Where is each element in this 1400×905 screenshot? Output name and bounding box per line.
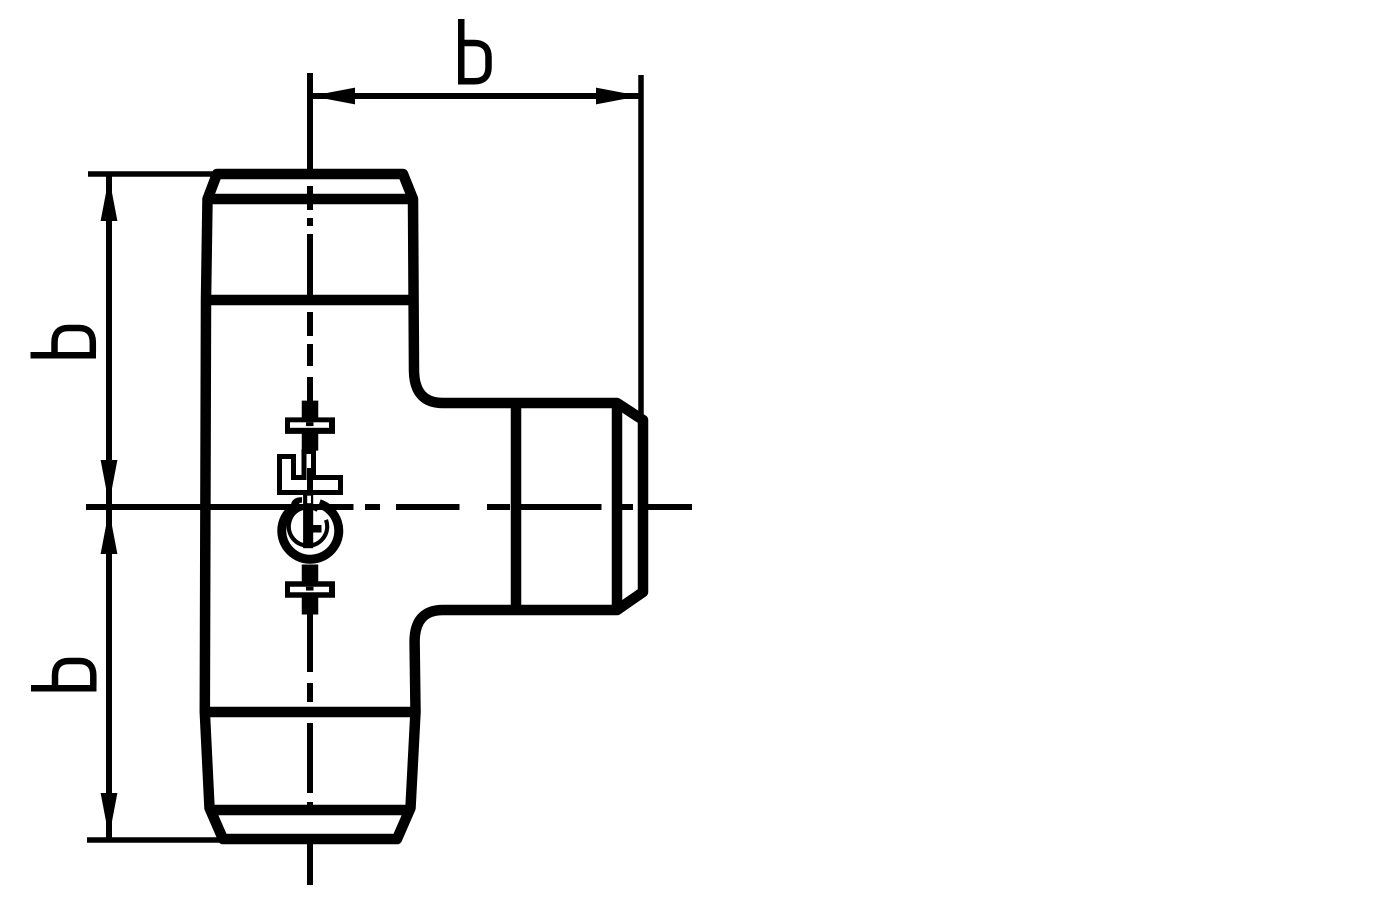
GF logo cross bottom: [285, 565, 335, 615]
label b top: [461, 19, 488, 85]
GF logo letter G terminal hook: [294, 500, 303, 507]
branch socket depth line: [511, 403, 522, 610]
extension line right of top dimension: [638, 75, 644, 418]
GF logo letter G inner edge ring (rotated): [289, 507, 327, 545]
bottom socket depth line: [205, 707, 416, 718]
label b lower-left (rotated): [31, 661, 97, 688]
GF logo letter F (rotated): [280, 452, 341, 493]
arrowhead lower-left bottom: [101, 793, 118, 837]
top socket depth line: [206, 295, 414, 306]
centerline dash crossing F: [307, 468, 313, 495]
GF logo letter G crossbar stub: [313, 525, 322, 533]
arrowhead upper-left bottom: [101, 460, 118, 504]
dimension line b upper-left: [106, 176, 112, 505]
branch chamfer line: [612, 403, 623, 610]
arrowhead lower-left top: [101, 510, 118, 554]
bottom socket chamfer line: [211, 805, 409, 816]
tee fitting body outline: [205, 174, 643, 839]
dimension line b top: [310, 93, 641, 99]
GF logo letter G bar: [303, 495, 313, 549]
GF logo cross top: [285, 401, 335, 451]
extension line bottom-left: [87, 837, 226, 843]
centerline vertical (dash-dot): [307, 73, 313, 885]
arrowhead upper-left top: [101, 177, 118, 221]
arrowhead top-right: [596, 88, 640, 105]
top socket chamfer line: [208, 194, 413, 205]
dimension line b lower-left: [106, 509, 112, 838]
label b upper-left (rotated): [31, 328, 97, 355]
extension line top-left: [88, 171, 219, 177]
centerline horizontal (dash-dot): [86, 504, 692, 510]
GF logo letter G outer ring (rotated): [282, 504, 339, 560]
arrowhead top-left: [311, 88, 355, 105]
